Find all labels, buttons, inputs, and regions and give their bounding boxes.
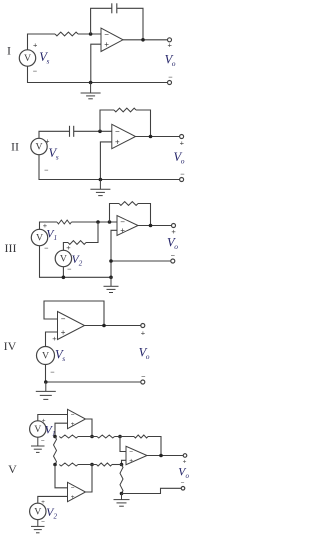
source return rail (III) (40, 246, 112, 277)
ground symbol A3 (V) (114, 494, 130, 507)
resistor R feedback (circuit II) (114, 108, 136, 112)
output terminal + (III) (172, 224, 176, 228)
op-amp U2 (circuit II) (112, 124, 136, 148)
bottom terminal - (III) (171, 259, 175, 263)
svg-text:V: V (35, 142, 42, 153)
svg-text:2: 2 (79, 259, 83, 267)
svg-text:−: − (41, 519, 45, 526)
bottom terminal - (V) (181, 487, 185, 491)
svg-text:o: o (174, 242, 178, 251)
ground symbol (II) (90, 180, 110, 196)
svg-text:+: + (41, 499, 45, 506)
svg-text:+: + (168, 41, 173, 50)
svg-text:−: − (33, 67, 38, 76)
node at inverting input (II) (98, 130, 102, 134)
svg-text:−: − (61, 315, 66, 324)
buffer1 output wire (V) (86, 419, 93, 437)
resistor R1 (circuit III) (57, 220, 72, 224)
ground symbol (III) (104, 277, 119, 292)
bottom terminal - (I) (168, 81, 172, 85)
resistor Rf feedback (circuit III) (119, 202, 138, 206)
label V2 (circuit V) (46, 507, 57, 521)
V2 return wire (III) (62, 267, 64, 278)
ground symbol (IV) (36, 382, 56, 399)
svg-text:+: + (52, 334, 57, 343)
junction output/feedback (II) (149, 135, 153, 139)
ground junction (I) (89, 81, 93, 85)
bottom rail (IV) (46, 365, 141, 382)
label V1 (circuit V) (45, 425, 56, 439)
voltage source V2 (circuit V) (30, 503, 46, 519)
svg-text:−: − (104, 30, 109, 39)
wire from V1 to buffer plus input (V) (38, 415, 68, 421)
voltage source V1 (circuit V) (30, 421, 46, 437)
ground junction (IV) (44, 380, 48, 384)
voltage source V1 (circuit III) (31, 229, 47, 245)
C1 down to minus input (V) (120, 437, 126, 452)
output wire of op-amp (I) (123, 39, 168, 41)
capacitor C input (circuit II) (70, 126, 74, 137)
voltage source Vs (circuit I) (19, 50, 35, 66)
feedback to output (V) (148, 437, 161, 456)
bottom terminal - (II) (180, 178, 184, 182)
wire R2 up to summing node (III) (86, 222, 98, 243)
wire from Vs top to input capacitor (II) (39, 131, 70, 138)
ground below V2 (V) (31, 520, 45, 533)
svg-text:−: − (129, 449, 133, 456)
svg-text:+: + (129, 458, 133, 465)
label Vo (circuit V) (178, 467, 189, 481)
output terminal + (II) (180, 135, 184, 139)
wire bottom terminal to plus branch (III) (111, 260, 171, 262)
svg-text:IV: IV (4, 339, 17, 353)
wire node up to feedback resistor (III) (110, 204, 120, 223)
label Vo (circuit III) (167, 236, 178, 252)
junction plus branch / terminal wire (III) (109, 259, 113, 263)
label Vs (circuit II) (49, 146, 59, 162)
resistor buffer1 feedback (V) (59, 435, 78, 438)
label Vo (circuit I) (165, 53, 176, 69)
ground node below resistor (V) (120, 492, 124, 496)
wire rowB to C2 (V) (112, 464, 122, 466)
ground symbol (I) (81, 83, 101, 99)
node at inverting input (I) (89, 32, 93, 36)
op-amp buffer A2 (circuit V) (68, 482, 86, 501)
svg-text:−: − (120, 217, 125, 226)
voltage source V2 (circuit III) (55, 250, 71, 266)
op-amp U3 (circuit III) (117, 216, 138, 236)
resistor gain RG (circuit V) (54, 437, 57, 465)
label V2 (circuit III) (72, 254, 83, 268)
svg-text:V: V (24, 53, 31, 64)
svg-text:−: − (50, 368, 55, 377)
resistor R2 (circuit III) (68, 241, 86, 245)
resistor row B input (V) (97, 463, 113, 466)
svg-text:s: s (47, 56, 50, 65)
voltage source Vs (circuit IV) (37, 347, 55, 365)
svg-text:1: 1 (54, 234, 58, 242)
buffer2 plus input wire to V2 (V) (38, 496, 68, 503)
wire ground node to bottom terminal (V) (122, 488, 182, 493)
label Vs (circuit I) (39, 50, 49, 66)
buffer2 minus tap up to row B (V) (55, 465, 68, 488)
svg-text:V: V (34, 507, 41, 518)
node A2 (V) (53, 463, 57, 467)
label Vo (circuit IV) (139, 346, 150, 362)
resistor row A input (V) (97, 435, 115, 438)
wire from Vs top to input resistor (I) (28, 34, 56, 50)
wire feedback resistor to output (III) (138, 204, 151, 226)
svg-text:s: s (56, 153, 59, 162)
output wire of op-amp (II) (136, 136, 180, 138)
svg-text:III: III (5, 241, 17, 255)
resistor C2 to ground (circuit V) (120, 465, 123, 494)
bottom rail (I) (28, 66, 168, 82)
svg-text:−: − (44, 244, 49, 253)
svg-text:o: o (181, 157, 185, 166)
svg-text:o: o (172, 59, 176, 68)
node B1 buffer1 output (V) (90, 435, 94, 439)
bottom rail (II) (39, 155, 180, 180)
svg-text:+: + (120, 226, 125, 235)
plus input wire of A3 (V) (122, 460, 127, 464)
op-amp buffer A1 (circuit V) (68, 409, 86, 428)
op-amp U1 (circuit I) (101, 28, 123, 51)
svg-text:+: + (180, 139, 185, 148)
wire rowB between (V) (78, 464, 97, 466)
capacitor C feedback (circuit I) (112, 3, 117, 13)
ground junction (III) (109, 276, 113, 280)
feedback loop minus input (IV) (44, 301, 104, 326)
svg-text:+: + (141, 329, 146, 338)
ground below V1 (V) (31, 437, 45, 452)
op-amp U4 (circuit IV) (58, 312, 85, 340)
wire capacitor to inverting node (II) (74, 130, 112, 132)
label Vs (circuit IV) (55, 348, 65, 364)
node C2 noninverting path (V) (120, 463, 124, 467)
svg-text:+: + (42, 417, 46, 424)
plus input wire to source (IV) (46, 332, 58, 346)
wire plus input down to ground (III) (111, 230, 117, 277)
junction output/feedback (I) (141, 38, 145, 42)
svg-text:+: + (45, 137, 50, 146)
svg-text:+: + (71, 494, 75, 501)
output wire of op-amp (IV) (85, 325, 141, 327)
svg-text:−: − (44, 166, 49, 175)
node C1 inverting path (V) (118, 435, 122, 439)
svg-text:V: V (8, 462, 17, 476)
label V1 (circuit III) (46, 229, 57, 243)
svg-text:+: + (115, 138, 120, 147)
wire plus input down to ground rail (II) (100, 142, 111, 180)
wire from V2 top to resistor R2 (III) (63, 243, 68, 251)
wire plus input to ground rail (I) (91, 44, 101, 82)
svg-text:+: + (61, 328, 66, 337)
svg-text:II: II (11, 140, 19, 154)
bottom terminal - (IV) (141, 380, 145, 384)
wire resistor to inverting node (I) (78, 33, 101, 35)
output terminal + (I) (168, 38, 172, 42)
svg-text:+: + (71, 421, 75, 428)
wire rowA to C1 (V) (115, 436, 135, 438)
node at inverting input (III) (108, 220, 112, 224)
output terminal + (V) (183, 454, 187, 458)
wire rowA between (V) (78, 436, 97, 438)
buffer1 minus feedback tap (V) (55, 423, 68, 436)
junction output/feedback (IV) (102, 324, 106, 328)
junction A3 output/feedback (V) (159, 454, 163, 458)
svg-text:s: s (62, 354, 65, 363)
svg-text:+: + (33, 41, 38, 50)
ground junction (II) (99, 178, 103, 182)
wire feedback resistor to output (II) (136, 110, 151, 137)
svg-text:−: − (71, 485, 75, 492)
svg-text:+: + (183, 458, 187, 465)
output wire of A3 (V) (147, 455, 183, 457)
svg-text:−: − (71, 412, 75, 419)
svg-text:+: + (104, 40, 109, 49)
svg-text:V: V (42, 351, 49, 362)
svg-text:o: o (146, 352, 150, 361)
wire node up to feedback resistor (II) (100, 110, 114, 131)
svg-text:V: V (34, 424, 41, 435)
svg-text:−: − (181, 480, 185, 487)
junction output/feedback (III) (149, 224, 153, 228)
resistor A3 feedback (V) (134, 435, 148, 438)
node A1 (V) (53, 435, 57, 439)
resistor buffer2 feedback (V) (59, 463, 78, 466)
op-amp A3 difference (circuit V) (126, 446, 147, 464)
wire from V1 top to resistor R1 (III) (40, 222, 58, 229)
summing node A (III) (96, 220, 100, 224)
label Vo (circuit II) (174, 150, 185, 166)
output wire of op-amp (III) (138, 225, 171, 227)
node B2 buffer2 output (V) (90, 463, 94, 467)
svg-text:−: − (41, 437, 45, 444)
svg-text:V: V (36, 233, 43, 244)
buffer2 output wire (V) (86, 465, 93, 493)
wire R1 to summing node (III) (72, 221, 118, 223)
junction V2 return (III) (62, 276, 66, 280)
svg-text:I: I (7, 44, 11, 58)
output terminal + (IV) (141, 324, 145, 328)
wire node up to feedback capacitor (I) (91, 8, 112, 34)
svg-text:−: − (67, 265, 72, 274)
svg-text:o: o (186, 472, 190, 480)
svg-text:−: − (115, 127, 120, 136)
voltage source Vs (circuit II) (31, 138, 47, 154)
svg-text:2: 2 (54, 513, 58, 521)
svg-text:V: V (60, 254, 67, 265)
resistor R input (circuit I) (55, 32, 78, 36)
wire capacitor to output branch (I) (117, 8, 143, 40)
